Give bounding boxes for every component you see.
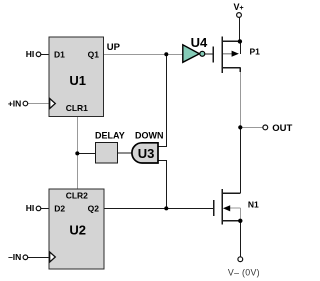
- svg-text:DOWN: DOWN: [135, 130, 164, 140]
- svg-text:HI: HI: [26, 203, 35, 213]
- svg-text:CLR2: CLR2: [66, 191, 88, 201]
- svg-text:N1: N1: [248, 200, 259, 210]
- svg-text:UP: UP: [107, 42, 121, 53]
- svg-text:D2: D2: [54, 204, 65, 214]
- svg-text:U1: U1: [69, 73, 86, 88]
- svg-text:DELAY: DELAY: [95, 130, 125, 140]
- svg-text:U2: U2: [69, 223, 86, 238]
- svg-text:CLR1: CLR1: [66, 103, 88, 113]
- svg-text:U4: U4: [191, 35, 208, 50]
- svg-text:–IN: –IN: [8, 252, 21, 262]
- svg-text:+IN: +IN: [8, 98, 21, 108]
- svg-text:U3: U3: [138, 146, 155, 161]
- svg-text:P1: P1: [250, 47, 261, 57]
- svg-text:Q2: Q2: [88, 204, 100, 214]
- svg-text:D1: D1: [54, 49, 65, 59]
- svg-text:OUT: OUT: [272, 123, 292, 134]
- svg-text:HI: HI: [26, 49, 35, 59]
- svg-text:V– (0V): V– (0V): [228, 267, 260, 277]
- svg-text:Q1: Q1: [88, 49, 100, 59]
